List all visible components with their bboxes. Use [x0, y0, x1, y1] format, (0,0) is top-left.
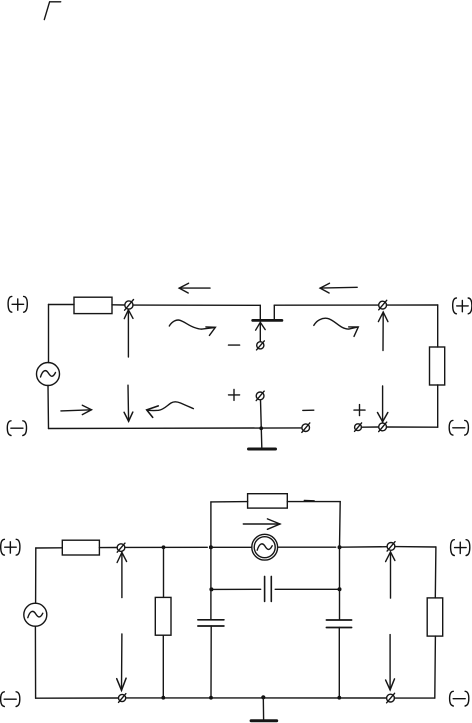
node E (top right terminal) — [379, 300, 387, 310]
node P1 (upper ground node) — [256, 391, 264, 401]
wire node G to right corner — [395, 546, 436, 548]
node B (bottom mid-left terminal) — [302, 423, 310, 433]
wire bottom rail right — [394, 697, 434, 699]
wire G3 to right vertical — [278, 546, 336, 548]
wire node F to R4 junction — [125, 546, 208, 548]
wire drop left into tap bar — [259, 305, 261, 319]
AC source G2 — [24, 603, 47, 626]
wire to node G — [340, 546, 388, 549]
junction dot (R4 bottom) — [161, 696, 165, 700]
label plus (near node C) — [354, 405, 365, 416]
ground — [249, 448, 276, 451]
junction dot (C3 bottom) — [337, 696, 341, 700]
wire junction to source G3 — [211, 546, 252, 548]
wire R3 to node — [99, 547, 117, 549]
top loop: right vertical — [339, 502, 342, 548]
node G (top-right terminal, bottom ckt) — [387, 542, 395, 552]
measure line right bottom-ckt (upper seg, up arrow) — [386, 552, 395, 598]
measure line right (lower seg with down arrow) — [378, 386, 388, 422]
label minus (near node B) — [303, 409, 314, 411]
top loop: left vertical — [210, 502, 212, 547]
junction dot (C1 bottom) — [209, 696, 213, 700]
measure line left (upper seg with up arrow) — [124, 310, 133, 357]
wire bottom rail (bottom ckt) — [36, 697, 119, 699]
wire bottom rail mid — [126, 697, 387, 699]
label (+) right bottom-circuit — [451, 540, 470, 556]
AC source G3 (double circle) — [252, 534, 278, 560]
measure line left bottom-ckt (upper seg, up arrow) — [117, 552, 127, 597]
wire cap row left — [211, 588, 260, 590]
wire bottom right — [387, 426, 438, 428]
measure line left bottom-ckt (lower seg, down arrow) — [117, 634, 126, 690]
resistor R4 (middle, bottom ckt) — [155, 597, 171, 635]
wire cap row right — [275, 588, 339, 590]
arrow current top-right (pointing left) — [320, 283, 357, 293]
arrow current bottom-left (pointing right) — [61, 405, 92, 414]
label plus (near P1) — [229, 389, 240, 400]
wire left rail upper (bottom ckt) — [35, 548, 37, 603]
wire top-left rail — [48, 305, 50, 363]
node H (bottom-left terminal, bottom ckt) — [119, 694, 126, 703]
junction dot (cap row left) — [209, 587, 213, 591]
retrace stroke on loop wire — [304, 500, 314, 502]
junction dot (cap row right) — [338, 587, 342, 591]
corner mark (cropped figure bracket, top-left) — [44, 2, 60, 20]
resistor R1 (top-left) — [74, 297, 112, 313]
junction dot (loop right, main wire) — [338, 545, 342, 549]
resistor R2 (right load, top circuit) — [430, 347, 445, 385]
node I (bottom-right terminal, bottom ckt) — [387, 693, 395, 703]
wire top (left of R1) — [49, 304, 75, 306]
measure line right bottom-ckt (lower seg, down arrow) — [386, 635, 395, 690]
label (-) left top-circuit — [7, 421, 26, 436]
wire mid-right vertical (above C3) — [339, 547, 341, 619]
wire right rail upper (bottom ckt) — [434, 547, 437, 598]
capacitor C3 (right vertical branch) — [326, 620, 351, 628]
top loop: wire R6 to right vertical — [287, 501, 340, 503]
wire mid-left vertical (above C1) — [210, 547, 212, 619]
junction dot (ground wire x bottom wire) — [259, 426, 263, 430]
resistor R6 (feedback, top of bottom ckt) — [248, 494, 288, 508]
label (+) right top-circuit — [453, 298, 472, 314]
label minus (near K1) — [229, 344, 240, 346]
label (+) left bottom-circuit — [1, 539, 20, 555]
ground (bottom ckt) — [251, 719, 277, 722]
resistor R3 (top-left, bottom ckt) — [62, 540, 99, 555]
squiggle arrow 2 (right, to upper-right) — [314, 318, 359, 336]
wire left rail lower (bottom ckt) — [34, 626, 36, 698]
label (+) left top — [8, 296, 27, 312]
wire top right segment — [274, 304, 378, 306]
wire node A to center — [133, 304, 260, 306]
AC source G1 — [37, 363, 60, 386]
measure line right (upper seg with up arrow) — [378, 312, 388, 350]
junction dot (loop left, main wire) — [209, 545, 213, 549]
measure line left (lower seg with down arrow) — [124, 385, 133, 421]
squiggle arrow 1 (left, to upper-right) — [169, 320, 215, 335]
resistor R5 (right load, bottom ckt) — [427, 598, 443, 636]
wire right rail upper — [437, 305, 439, 347]
junction dot (R4 top) — [162, 545, 166, 549]
wire R4 top lead — [163, 547, 165, 597]
junction dot (ground, bottom ckt) — [261, 695, 265, 699]
wire top left (bottom ckt) — [36, 547, 63, 549]
capacitor C2 (horizontal) — [265, 576, 272, 601]
label (-) right top-circuit — [449, 420, 468, 435]
arrow current top-left (pointing left) — [179, 283, 210, 293]
wire right rail lower — [437, 385, 439, 427]
capacitor C1 (left vertical branch) — [198, 620, 224, 626]
wire R4 bottom lead — [162, 635, 164, 698]
arrow up under bar — [256, 322, 266, 341]
top loop: wire to R6 — [211, 501, 248, 503]
node C (bottom mid-right terminal) — [355, 423, 362, 432]
wire node C to node D — [361, 426, 378, 428]
wire ground drop — [261, 400, 262, 447]
node D — [379, 422, 387, 432]
wire mid-right vertical (below C3) — [338, 628, 340, 698]
center-tap bar — [253, 319, 282, 322]
wire mid-left vertical (below C1) — [210, 626, 212, 698]
arrow current (under R6, pointing right) — [243, 519, 280, 529]
wire ground drop (bottom ckt) — [262, 697, 264, 719]
wire node E to right corner — [387, 304, 438, 306]
node F (top-left terminal, bottom ckt) — [117, 543, 125, 552]
wire right rail lower (bottom ckt) — [434, 636, 437, 698]
label (-) right bottom-circuit — [450, 691, 469, 706]
wire bottom left — [49, 427, 302, 430]
wire left rail lower — [47, 386, 50, 429]
node A (terminal, top-left) — [125, 300, 134, 311]
wire R1 to node — [112, 304, 125, 306]
wire drop right from tap bar — [273, 305, 275, 319]
node K1 (below bar) — [257, 341, 265, 350]
squiggle arrow 3 (bottom, to left) — [147, 402, 194, 418]
label (-) left bottom-circuit — [1, 692, 20, 707]
